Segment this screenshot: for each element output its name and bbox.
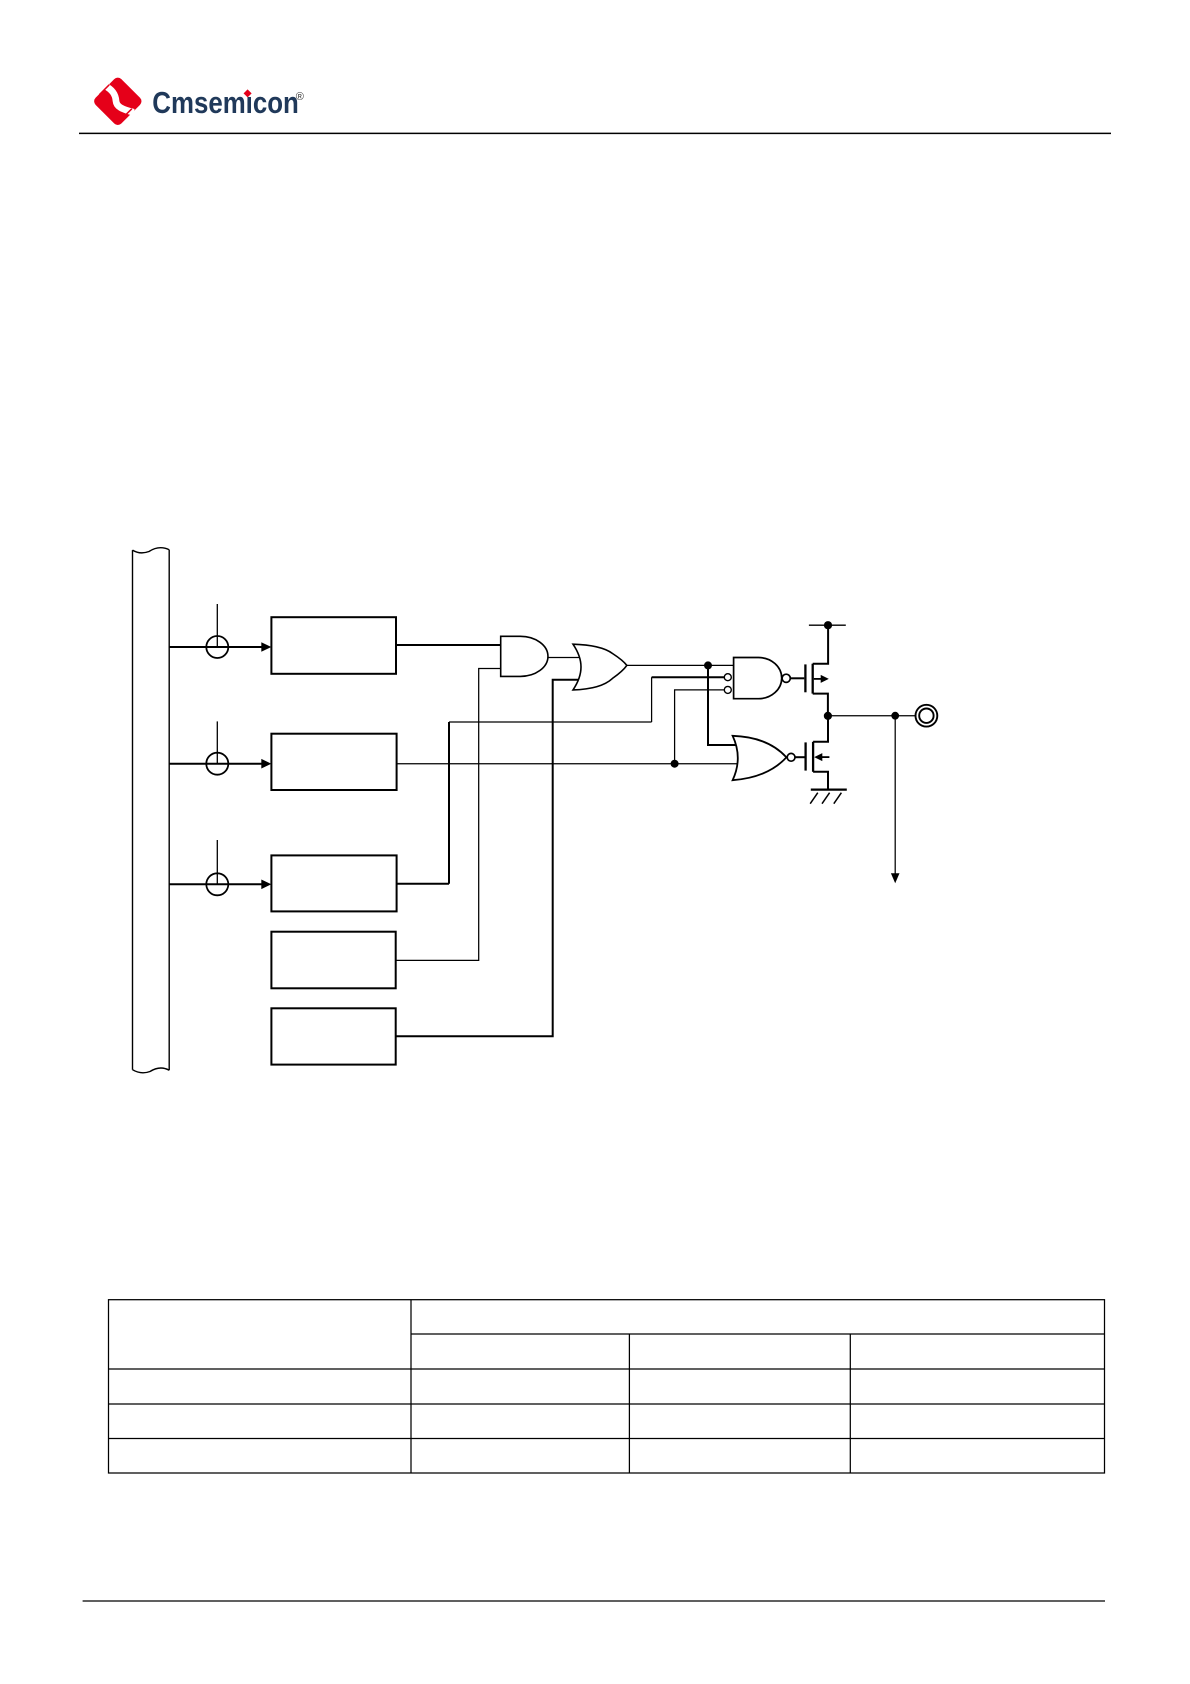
ground hatch 2: [822, 793, 830, 804]
arrowhead into box1: [261, 642, 271, 652]
PMOS gate wire: [790, 677, 804, 679]
wire OR output to NAND input 1: [627, 664, 734, 666]
arrowhead down: [891, 873, 900, 883]
NAND gate: [734, 658, 782, 699]
table grid: [109, 1300, 1105, 1473]
NMOS channel bar: [812, 742, 814, 772]
VDD node dot: [824, 621, 832, 629]
svg-text:®: ®: [296, 91, 304, 103]
NMOS gate wire: [795, 756, 805, 758]
box2: [271, 734, 396, 790]
wire box1 output to AND gate input 1: [396, 644, 501, 646]
tap circle row1: [206, 636, 228, 658]
footer rule: [83, 1600, 1105, 1602]
wire box4 output to AND gate input 2: [396, 669, 501, 961]
IO pad (double circle): [916, 705, 938, 727]
NMOS gate bar: [804, 742, 806, 770]
VDD rail: [809, 624, 846, 626]
tap stub row3: [216, 840, 218, 884]
wire box2 output rail to NOR gate input 2: [397, 763, 740, 765]
box3: [271, 855, 396, 911]
ground bar: [811, 788, 847, 790]
wire AND output to OR input 1: [548, 657, 581, 659]
PMOS channel bar: [812, 664, 814, 694]
wire riser from box3: [448, 722, 450, 884]
NAND input bubble 1: [724, 674, 731, 681]
box1: [271, 617, 396, 674]
NOR gate: [733, 736, 787, 780]
tap circle row2: [206, 753, 228, 775]
arrowhead into box2: [261, 759, 271, 769]
OR gate: [573, 644, 627, 690]
logo wordmark Cmsemicon: [152, 86, 304, 120]
wire box5 output to OR gate input 2: [396, 680, 582, 1037]
NAND input bubble 2: [724, 686, 731, 693]
ground hatch 3: [834, 793, 842, 804]
logo mark (red diamond with white S): [92, 76, 143, 127]
wire bus to box1: [169, 646, 263, 648]
svg-text:Cmsemıcon: Cmsemıcon: [152, 86, 298, 120]
PMOS gate bar: [804, 664, 806, 692]
NMOS source stub to ground: [813, 772, 828, 790]
PMOS source arrow: [814, 678, 821, 680]
wire into NAND input bubble 1: [652, 676, 725, 678]
junction node on OR output: [704, 661, 712, 669]
wire bus to box2: [169, 763, 263, 765]
AND gate: [501, 636, 548, 676]
box5: [271, 1008, 395, 1064]
bus bar (left, with wavy break ends): [133, 548, 170, 1073]
NMOS drain stub from output node: [813, 716, 828, 742]
NOR output bubble: [787, 753, 795, 761]
wire branch up to NAND input bubble 2: [675, 690, 725, 764]
NAND output bubble: [782, 674, 790, 682]
wire riser to NAND input 1 level: [651, 677, 653, 722]
wire box3 output: [397, 883, 449, 885]
NMOS bulk arrow: [814, 753, 822, 761]
wire horizontal to NAND path: [449, 721, 652, 723]
ground hatch 1: [810, 793, 818, 804]
tap stub row1: [216, 604, 218, 647]
wire output node to pad: [828, 715, 916, 717]
tap stub row2: [216, 721, 218, 763]
PMOS source stub to output node: [813, 694, 828, 716]
output node dot: [824, 712, 832, 720]
PMOS drain stub to VDD: [813, 625, 828, 664]
wire branch down to NOR input 1: [708, 665, 741, 745]
junction node on row2 rail: [671, 760, 679, 768]
wire bus to box3: [169, 883, 263, 885]
header rule: [79, 132, 1111, 134]
junction dot before pad: [891, 712, 899, 720]
arrowhead into box3: [261, 880, 271, 890]
box4: [271, 932, 395, 989]
tap circle row3: [206, 873, 228, 895]
wire down from junction: [894, 716, 896, 875]
